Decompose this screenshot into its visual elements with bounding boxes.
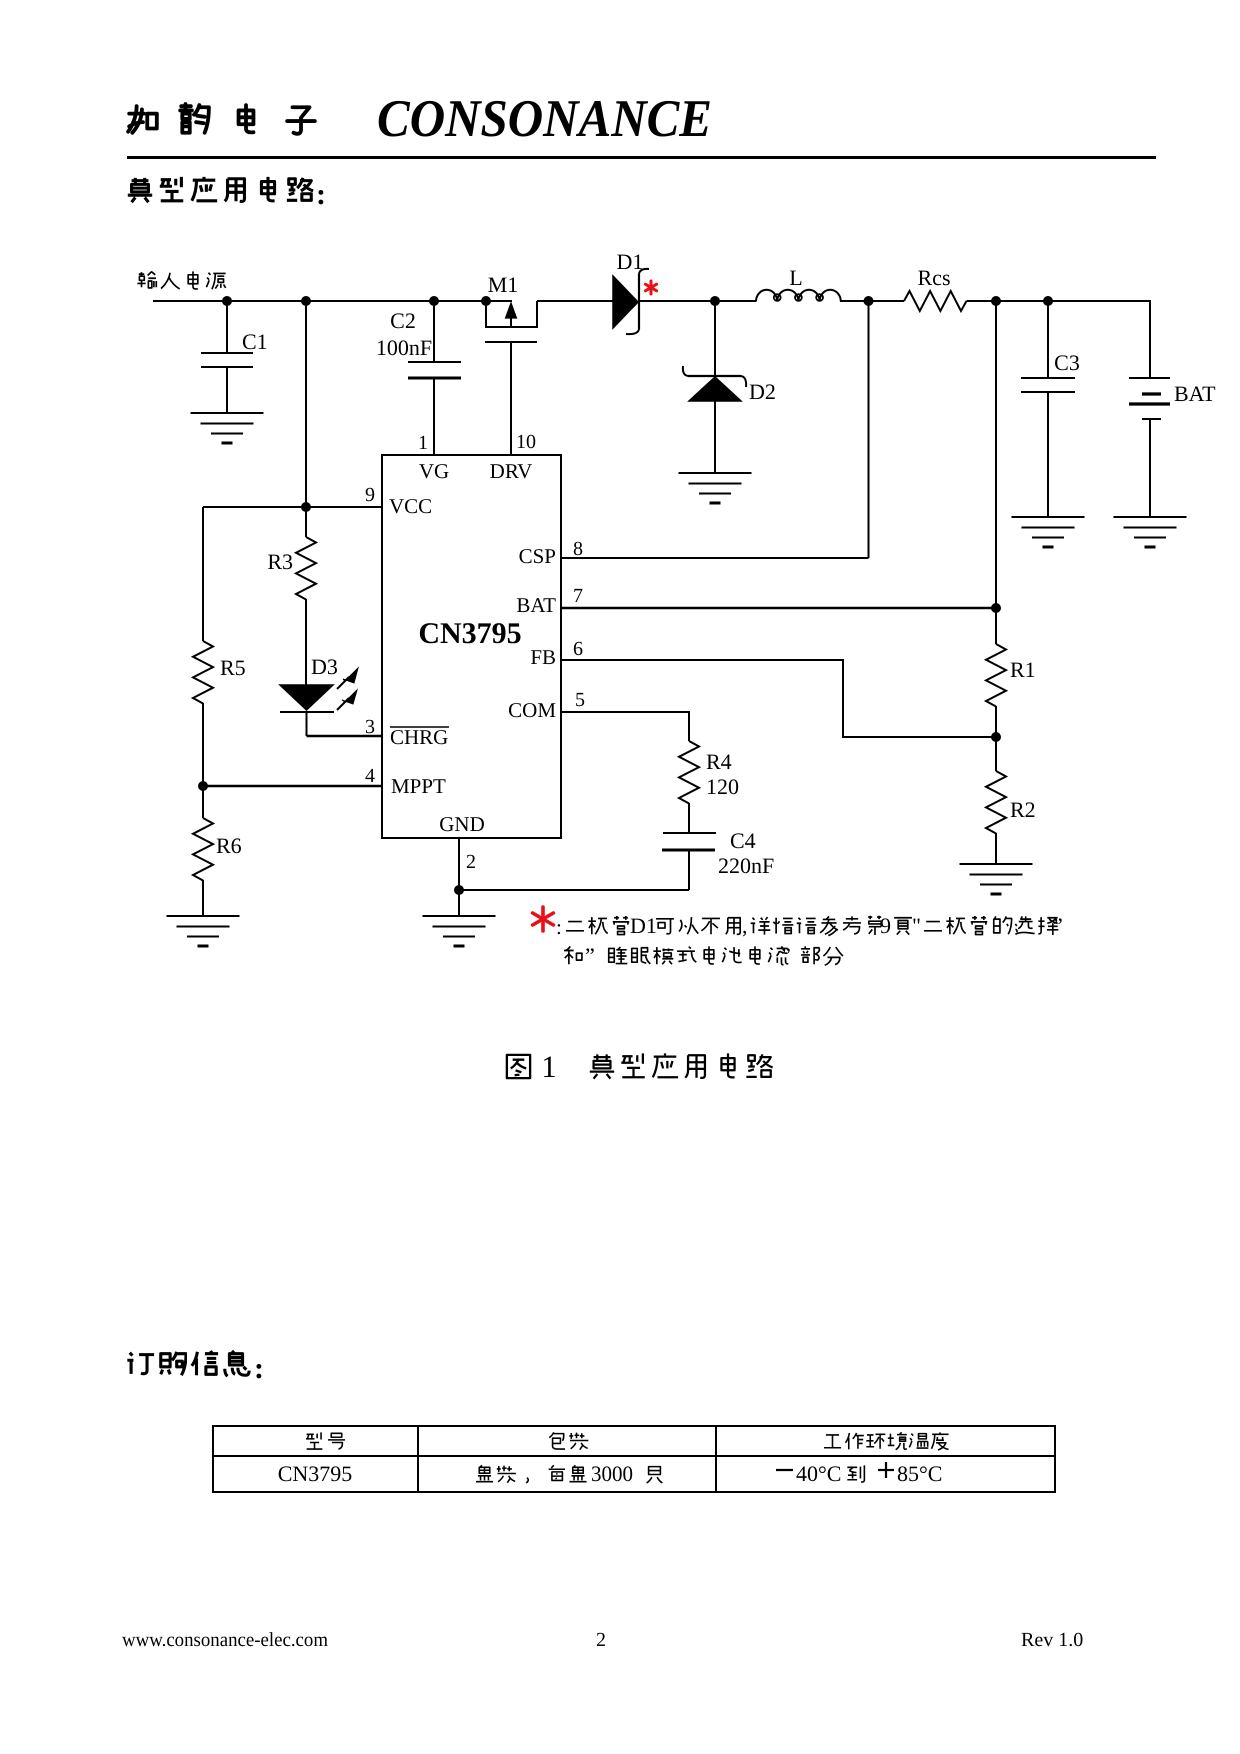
svg-text:C1: C1 [242, 329, 268, 354]
svg-text:C4: C4 [730, 828, 756, 853]
wire: COM pin 5 [561, 712, 689, 741]
svg-text:Rcs: Rcs [918, 265, 951, 290]
svg-text:COM: COM [508, 698, 556, 722]
svg-text:R3: R3 [267, 549, 293, 574]
red asterisk (D1 note marker) [645, 281, 656, 294]
wire: FB pin 6 [561, 660, 996, 737]
svg-text:°C: °C [919, 1461, 942, 1486]
caption 图1 典型应用电路 [507, 1053, 773, 1078]
transistor M1 (P-MOSFET) [486, 301, 537, 327]
svg-text:D2: D2 [749, 379, 776, 404]
svg-text:,: , [742, 913, 748, 938]
svg-text:8: 8 [573, 538, 583, 560]
svg-text::: : [254, 1352, 264, 1385]
svg-text:6: 6 [573, 638, 583, 660]
svg-text:40: 40 [796, 1461, 818, 1486]
svg-text:M1: M1 [488, 272, 519, 297]
svg-text:R2: R2 [1010, 797, 1036, 822]
svg-text:C2: C2 [390, 308, 416, 333]
svg-text::: : [556, 915, 562, 939]
ground (R6) [167, 915, 240, 917]
heading: typical application circuit [128, 177, 313, 202]
wire: top rail [153, 300, 512, 302]
svg-text:CONSONANCE: CONSONANCE [377, 90, 712, 148]
header rule [127, 156, 1156, 159]
svg-text:D1: D1 [617, 249, 644, 274]
svg-text:": " [912, 913, 921, 938]
resistor R4 120 [679, 741, 699, 803]
svg-text:100nF: 100nF [376, 335, 432, 360]
svg-text:C3: C3 [1054, 350, 1080, 375]
svg-text:”: ” [1053, 913, 1063, 938]
wire: GND pin 2 [458, 838, 460, 890]
svg-text:85: 85 [897, 1461, 919, 1486]
svg-text:GND: GND [439, 812, 485, 836]
LED D3 [280, 685, 333, 710]
svg-text:R1: R1 [1010, 657, 1036, 682]
wire: battery sense from Rcs output [995, 301, 997, 608]
svg-text:1: 1 [541, 1049, 557, 1084]
svg-text:FB: FB [530, 645, 556, 669]
resistor Rcs [904, 291, 966, 311]
svg-text:9: 9 [880, 913, 891, 938]
resistor R3 [305, 507, 307, 537]
svg-text:120: 120 [706, 774, 739, 799]
resistor R1 [995, 608, 997, 644]
capacitor C3 [1047, 301, 1049, 378]
footnote red asterisk [533, 907, 554, 931]
svg-text:220nF: 220nF [718, 853, 774, 878]
ground (D2) [679, 472, 752, 474]
footnote line 1 [566, 916, 1058, 936]
wire: MPPT pin 4 [203, 785, 382, 788]
svg-text:4: 4 [365, 765, 375, 787]
svg-text:BAT: BAT [516, 593, 556, 617]
ground (R2) [960, 863, 1033, 865]
wire: BAT pin 7 [561, 607, 996, 610]
svg-text:”: ” [585, 943, 595, 968]
svg-text:R4: R4 [706, 749, 732, 774]
capacitor C2 100nF [433, 301, 435, 362]
svg-text:”: ” [781, 943, 791, 968]
svg-text:D3: D3 [311, 654, 338, 679]
svg-text:L: L [789, 265, 802, 290]
node junction dots on top rail [222, 296, 232, 306]
logo 如韵电子 [128, 104, 315, 134]
LED arrows [337, 668, 358, 710]
wire: CSP pin 8 [561, 557, 869, 559]
inductor L [756, 290, 841, 302]
svg-text:5: 5 [575, 689, 585, 711]
CHRG overline [390, 726, 449, 728]
svg-text:R5: R5 [220, 655, 246, 680]
op-amp U1: CN3795 controller IC [382, 455, 561, 838]
ground (BAT) [1114, 516, 1187, 518]
svg-text:°C: °C [818, 1461, 841, 1486]
diode D2 [714, 301, 716, 377]
heading: ordering info 订购信息 [127, 1351, 249, 1376]
ground (GND pin) [423, 915, 496, 917]
svg-text:9: 9 [365, 484, 375, 506]
svg-text:Rev 1.0: Rev 1.0 [1021, 1629, 1083, 1651]
resistor R5 [193, 641, 213, 703]
svg-text:DRV: DRV [490, 459, 533, 483]
svg-text:1: 1 [418, 432, 428, 454]
diode D1 (schottky) with red asterisk [613, 276, 638, 328]
svg-text:MPPT: MPPT [391, 774, 446, 798]
svg-text:BAT: BAT [1174, 381, 1216, 406]
svg-text:CN3795: CN3795 [418, 617, 521, 650]
svg-text:www.consonance-elec.com: www.consonance-elec.com [122, 1629, 328, 1651]
capacitor C1 [226, 301, 228, 353]
capacitor C4 220nF [663, 832, 716, 834]
wire: VCC rail [305, 301, 307, 507]
svg-text:R6: R6 [216, 833, 242, 858]
battery BAT [1129, 377, 1170, 379]
svg-text:CSP: CSP [519, 544, 556, 568]
svg-text:3000: 3000 [591, 1461, 633, 1486]
svg-text:VG: VG [419, 459, 449, 483]
svg-text:CHRG: CHRG [390, 725, 448, 749]
svg-text:CN3795: CN3795 [278, 1461, 353, 1486]
footnote line 2 [564, 946, 843, 965]
svg-text:D1: D1 [630, 913, 657, 938]
node: input power label 输入电源 [137, 271, 225, 289]
svg-text:VCC: VCC [389, 494, 432, 518]
svg-text::: : [316, 178, 326, 211]
svg-text:7: 7 [573, 585, 583, 607]
resistor R2 [995, 737, 997, 771]
svg-text:2: 2 [466, 851, 476, 873]
wire: CSP feedback from L output [868, 301, 870, 558]
ground (C1) [191, 412, 264, 414]
svg-text:2: 2 [596, 1629, 606, 1651]
ground (C3) [1012, 516, 1085, 518]
svg-text:10: 10 [516, 431, 536, 453]
table: ordering info [213, 1426, 1055, 1492]
resistor R6 [202, 786, 204, 818]
